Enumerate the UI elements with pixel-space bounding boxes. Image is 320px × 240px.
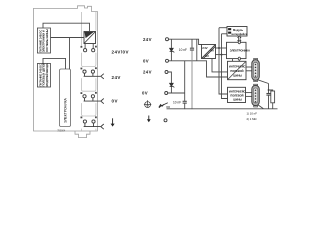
svg-text:ПОЛЕВОЙ: ПОЛЕВОЙ [230, 93, 243, 97]
svg-text:24V/0V: 24V/0V [112, 49, 129, 54]
svg-text:1) 10 nF: 1) 10 nF [247, 111, 258, 115]
svg-text:24V: 24V [143, 37, 152, 42]
svg-text:ПОЛЕВОЙ: ПОЛЕВОЙ [230, 69, 243, 73]
svg-text:ШИНЫ: ШИНЫ [233, 74, 242, 78]
svg-text:ИНТЕРФЕЙС: ИНТЕРФЕЙС [229, 65, 246, 69]
svg-text:0V: 0V [112, 99, 118, 104]
svg-text:24V: 24V [202, 46, 207, 50]
svg-text:24V: 24V [143, 70, 152, 75]
svg-text:10 nF: 10 nF [179, 48, 187, 52]
svg-text:2) 1 MΩ: 2) 1 MΩ [247, 117, 257, 121]
svg-text:ЭЛЕКТРОНИКА: ЭЛЕКТРОНИКА [64, 97, 68, 123]
svg-text:ИНТЕРФЕЙС: ИНТЕРФЕЙС [229, 89, 246, 93]
svg-text:ЭЛЕКТРОНИКА: ЭЛЕКТРОНИКА [230, 49, 250, 53]
svg-text:ШИНЫ: ШИНЫ [233, 97, 242, 101]
svg-text:5V: 5V [210, 49, 214, 53]
svg-text:750004: 750004 [57, 129, 66, 132]
svg-text:0V: 0V [142, 91, 148, 96]
svg-text:Модуль: Модуль [233, 28, 243, 32]
svg-text:10 nF: 10 nF [173, 101, 181, 105]
svg-text:МОДУЛЕЙ ВВОДА: МОДУЛЕЙ ВВОДА [45, 63, 49, 86]
svg-text:5V: 5V [205, 54, 209, 58]
svg-text:24V: 24V [112, 75, 121, 80]
svg-text:интерфейса: интерфейса [232, 32, 248, 36]
svg-text:0V: 0V [143, 58, 149, 63]
svg-text:СИСТЕМЫ ШИНЫ: СИСТЕМЫ ШИНЫ [45, 29, 49, 53]
